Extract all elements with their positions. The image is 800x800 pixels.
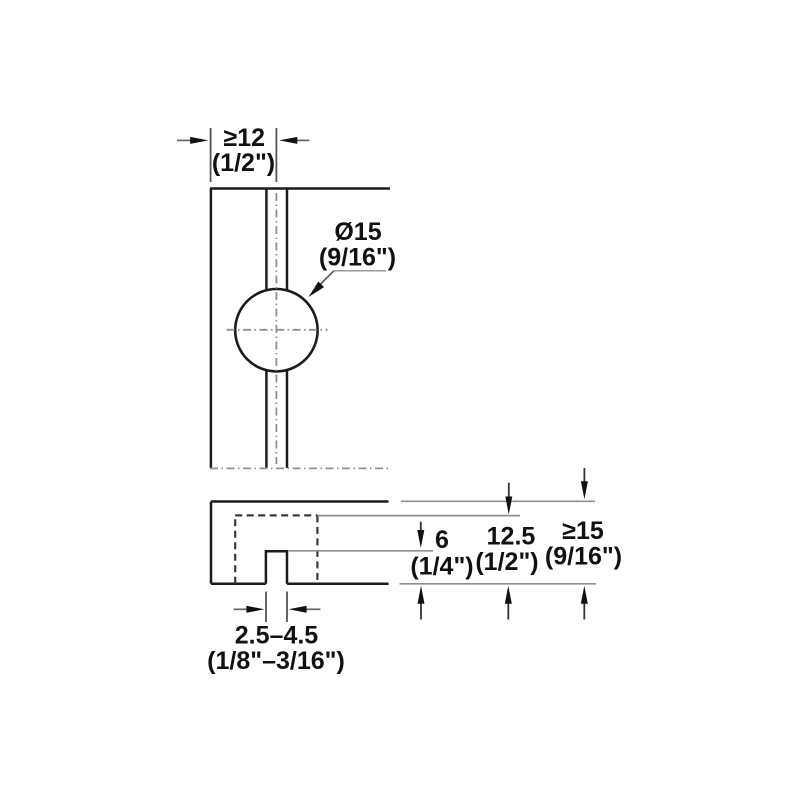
svg-text:12.5: 12.5: [487, 523, 536, 551]
svg-text:(1/4"): (1/4"): [410, 553, 473, 581]
svg-text:2.5–4.5: 2.5–4.5: [235, 621, 319, 649]
svg-text:≥15: ≥15: [562, 517, 604, 545]
svg-text:Ø15: Ø15: [334, 218, 381, 246]
svg-text:(9/16"): (9/16"): [319, 243, 396, 271]
svg-text:6: 6: [435, 526, 449, 554]
svg-text:(1/2"): (1/2"): [212, 149, 275, 177]
svg-text:≥12: ≥12: [224, 124, 266, 152]
svg-text:(9/16"): (9/16"): [545, 542, 622, 570]
svg-text:(1/8"–3/16"): (1/8"–3/16"): [207, 647, 345, 675]
svg-text:(1/2"): (1/2"): [475, 548, 538, 576]
